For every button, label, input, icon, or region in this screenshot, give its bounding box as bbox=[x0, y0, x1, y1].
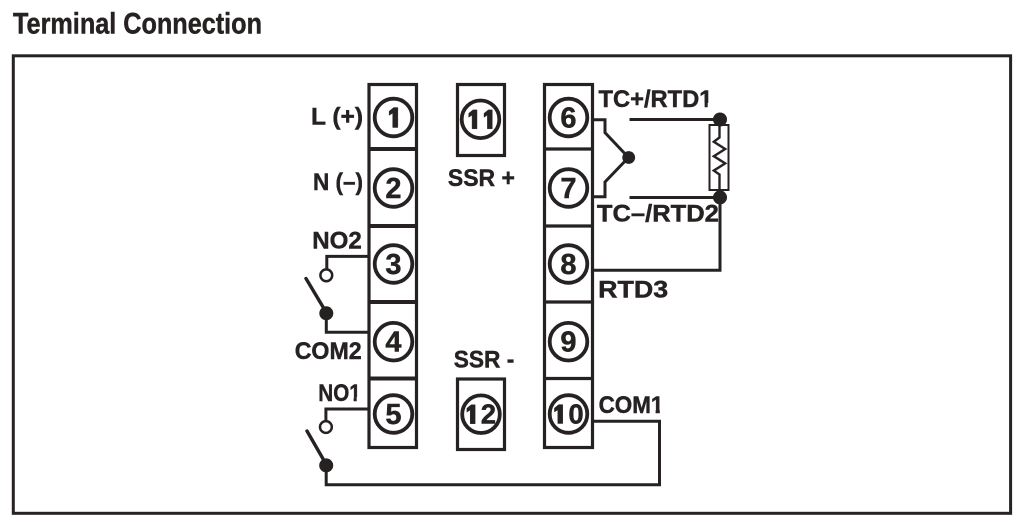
svg-text:L (+): L (+) bbox=[311, 103, 363, 130]
wire COM2 to terminal 4 bbox=[326, 313, 369, 332]
wire TC-/RTD2 to resistor bottom bbox=[630, 196, 721, 199]
terminal 5 bbox=[375, 395, 413, 433]
svg-text:N (–): N (–) bbox=[313, 169, 363, 196]
switch SW1 open contact bbox=[320, 421, 332, 433]
wire terminal 6 to TC junction bbox=[593, 120, 630, 158]
TC junction node bbox=[622, 151, 635, 164]
wire NO2 to terminal 3 bbox=[327, 256, 369, 269]
svg-text:3: 3 bbox=[385, 249, 401, 281]
svg-text:SSR -: SSR - bbox=[454, 346, 515, 373]
switch SW1 pivot junction bbox=[319, 458, 333, 472]
wire NO1 to terminal 5 bbox=[326, 409, 369, 421]
svg-text:8: 8 bbox=[560, 249, 576, 281]
switch SW2 pivot junction bbox=[319, 306, 333, 320]
svg-text:7: 7 bbox=[560, 173, 576, 205]
switch SW2 blade bbox=[306, 279, 326, 313]
switch SW2 open contact bbox=[320, 269, 332, 281]
svg-text:TC–/RTD2: TC–/RTD2 bbox=[597, 201, 719, 228]
svg-text:COM1: COM1 bbox=[599, 392, 664, 419]
terminal 4 bbox=[375, 323, 413, 361]
wire SW1 to COM1 terminal 10 bbox=[326, 421, 659, 485]
node resistor bottom bbox=[713, 190, 727, 204]
terminal 3 bbox=[375, 245, 413, 283]
svg-text:9: 9 bbox=[560, 327, 576, 359]
svg-text:NO2: NO2 bbox=[312, 228, 362, 255]
svg-text:NO1: NO1 bbox=[318, 380, 361, 407]
RTD resistor body bbox=[710, 125, 729, 190]
svg-text:Terminal Connection: Terminal Connection bbox=[13, 7, 262, 40]
svg-text:COM2: COM2 bbox=[295, 338, 362, 365]
wire resistor bottom to RTD3 terminal 8 bbox=[593, 197, 721, 270]
wire TC+/RTD1 to resistor top bbox=[630, 118, 721, 121]
terminal 12 bbox=[458, 379, 505, 450]
svg-text:2: 2 bbox=[385, 173, 401, 205]
node resistor top bbox=[713, 113, 727, 127]
svg-text:TC+/RTD1: TC+/RTD1 bbox=[599, 86, 713, 113]
terminal 2 bbox=[375, 169, 413, 207]
terminal 8 bbox=[550, 245, 588, 283]
switch SW1 blade bbox=[307, 431, 326, 464]
svg-text:2: 2 bbox=[481, 399, 496, 430]
terminal 11 bbox=[458, 85, 505, 156]
terminal strip 1-5 outline bbox=[369, 85, 417, 448]
svg-text:5: 5 bbox=[385, 399, 401, 431]
wire terminal 7 to TC junction bbox=[593, 157, 630, 197]
svg-text:4: 4 bbox=[385, 327, 401, 359]
terminal 10 bbox=[550, 395, 588, 433]
terminal 9 bbox=[550, 323, 588, 361]
terminal 6 bbox=[550, 99, 588, 137]
svg-text:SSR +: SSR + bbox=[448, 165, 515, 192]
terminal 1 bbox=[375, 99, 413, 137]
svg-text:6: 6 bbox=[560, 103, 576, 135]
terminal strip 6-10 outline bbox=[545, 85, 593, 448]
terminal 7 bbox=[550, 169, 588, 207]
svg-text:RTD3: RTD3 bbox=[598, 277, 668, 304]
svg-text:0: 0 bbox=[568, 399, 583, 430]
